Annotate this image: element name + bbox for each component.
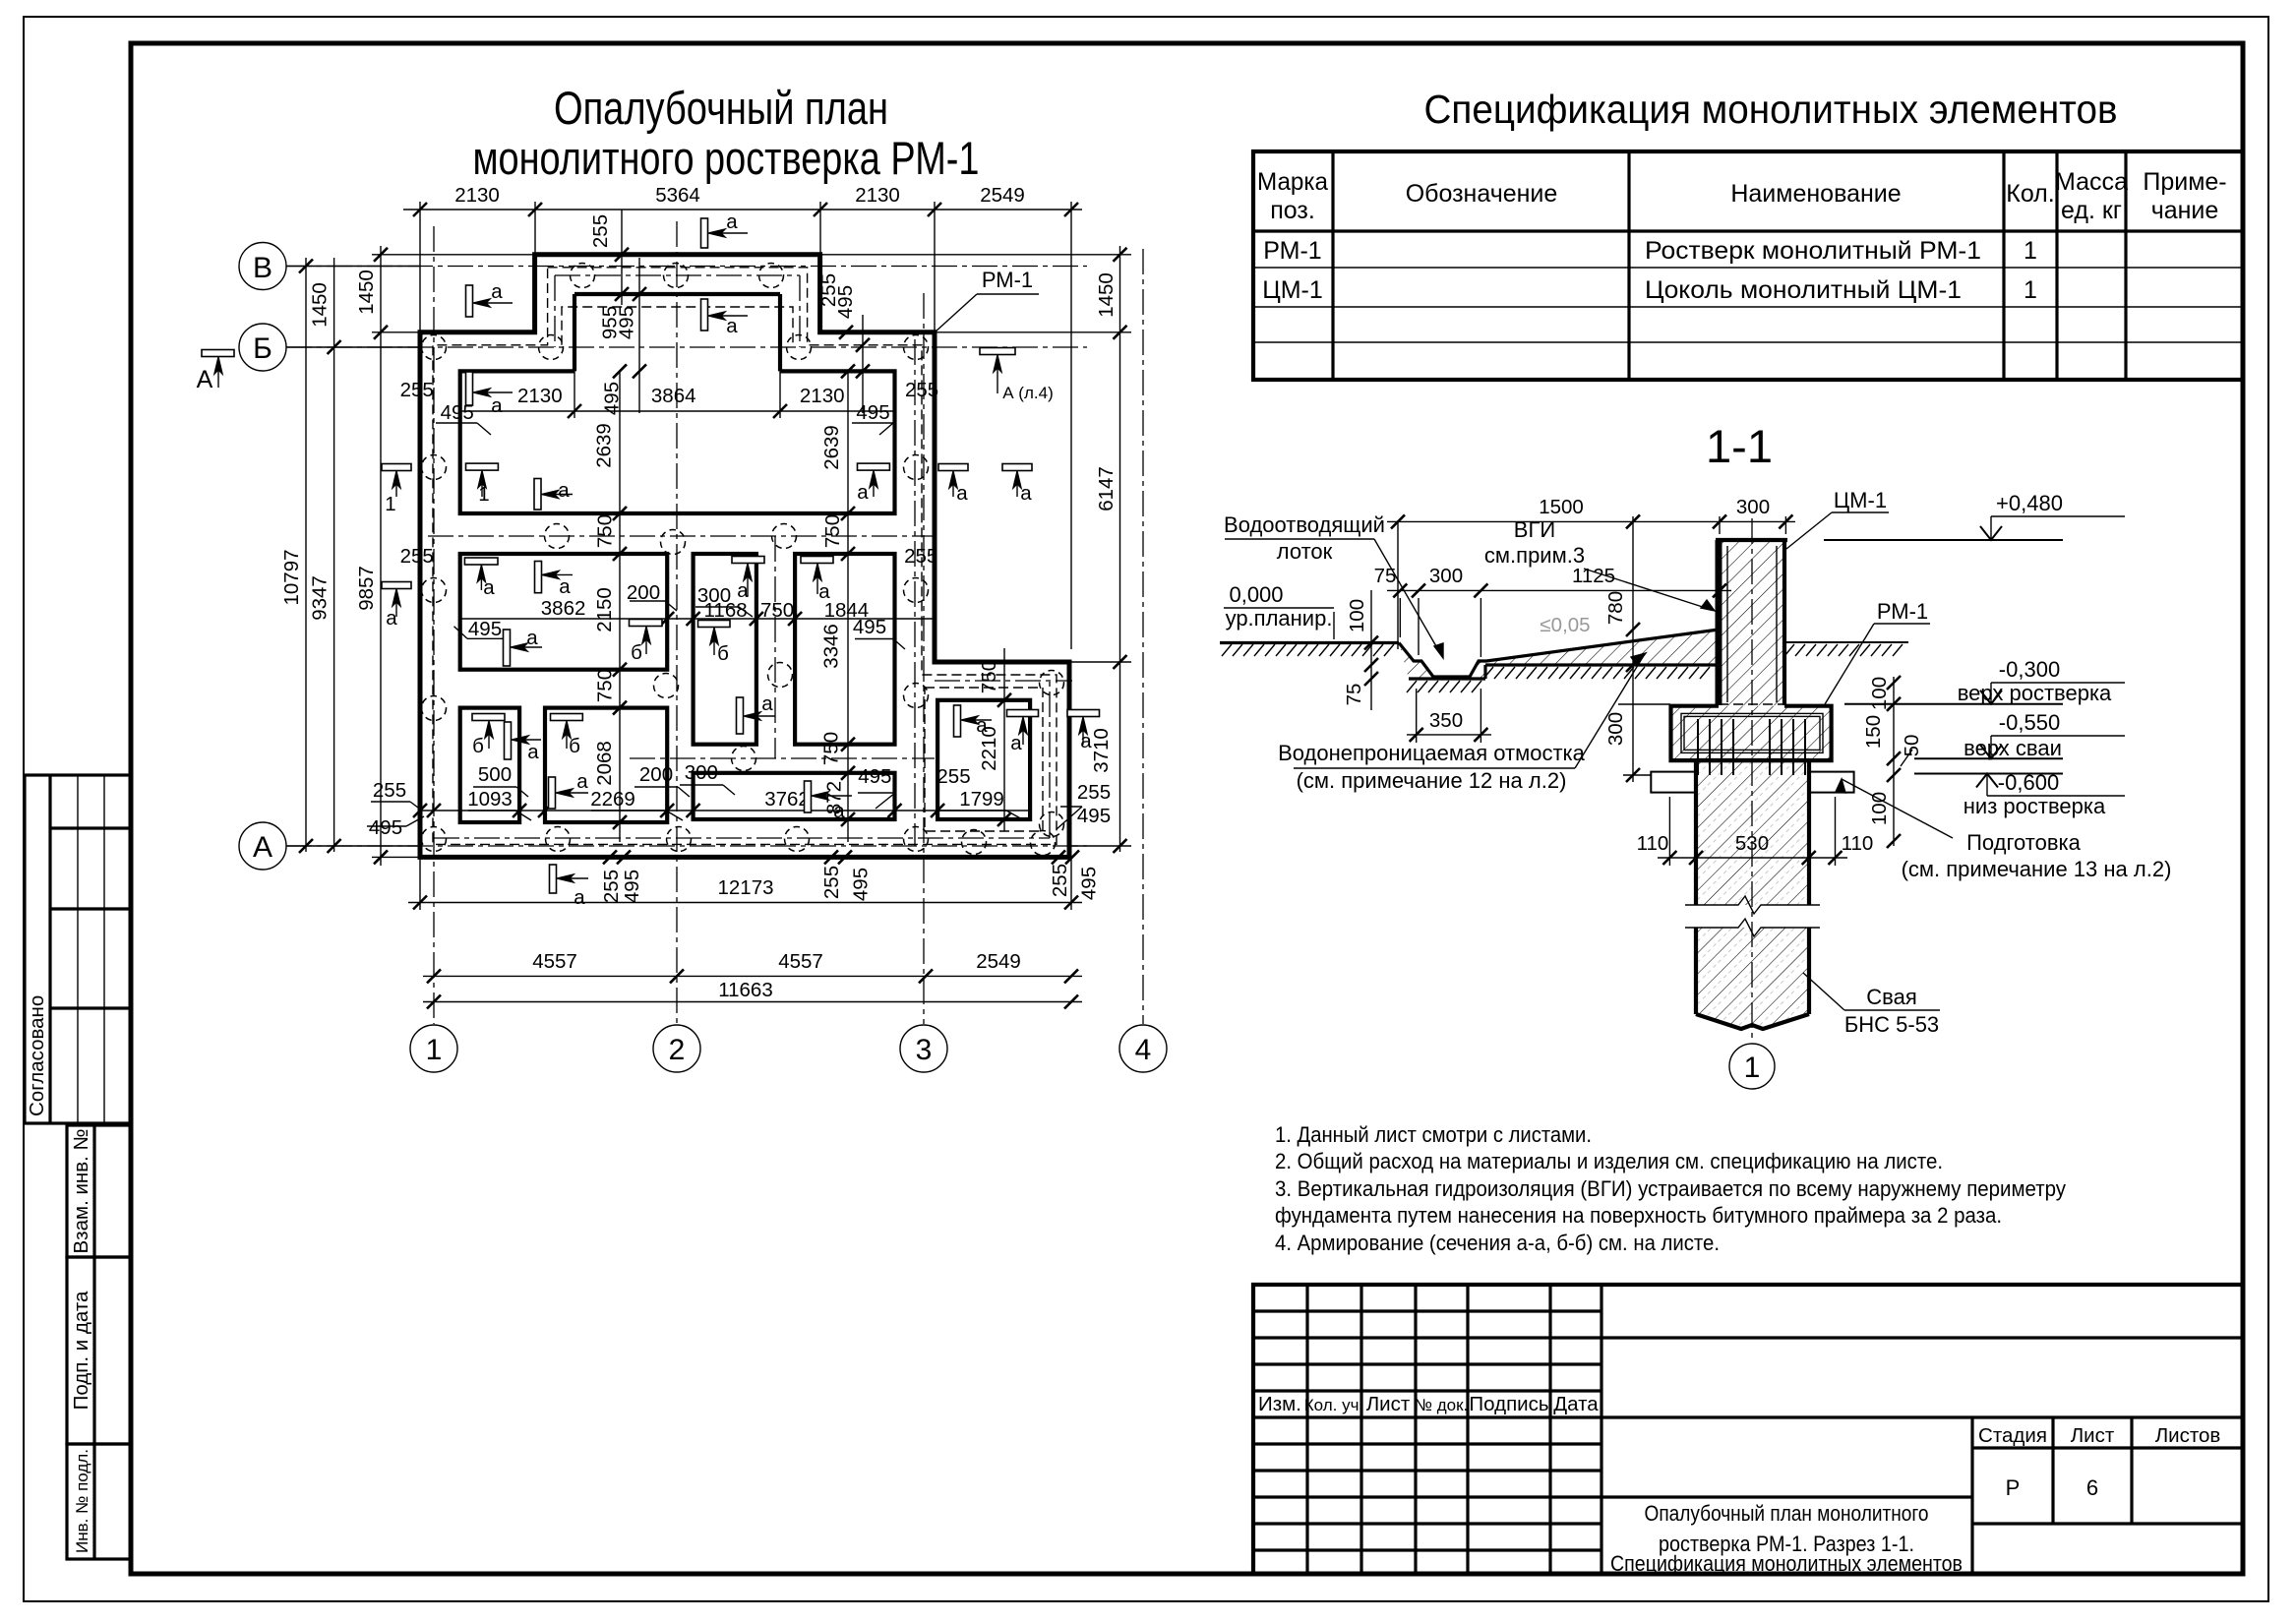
pile 3 [759, 264, 784, 288]
svg-text:а: а [576, 770, 588, 793]
plinth column CM-1 hatch [1719, 540, 1784, 705]
pile 16 [768, 663, 793, 688]
svg-text:Ростверк монолитный РМ-1: Ростверк монолитный РМ-1 [1645, 237, 1981, 265]
pile axis bottom [434, 837, 1050, 839]
svg-text:верх ростверка: верх ростверка [1958, 681, 2112, 705]
inner dim line x630 [619, 371, 621, 842]
svg-text:5364: 5364 [655, 184, 700, 207]
level -0,550 [1914, 757, 2063, 759]
svg-text:В: В [253, 252, 272, 284]
left dim 10797 [305, 258, 307, 852]
svg-text:-0,550: -0,550 [1999, 710, 2060, 735]
svg-text:-0,300: -0,300 [1999, 657, 2060, 682]
svg-text:1450: 1450 [355, 270, 378, 315]
svg-text:110: 110 [1842, 832, 1874, 855]
svg-text:2130: 2130 [800, 385, 845, 407]
svg-text:Масса: Масса [2055, 168, 2128, 196]
svg-text:2: 2 [669, 1034, 686, 1066]
svg-text:100: 100 [1868, 792, 1891, 825]
grid axis 1 [433, 226, 435, 1024]
svg-text:1093: 1093 [467, 788, 513, 811]
svg-text:фундамента путем нанесения на: фундамента путем нанесения на поверхност… [1275, 1203, 2002, 1228]
svg-text:495: 495 [850, 868, 873, 901]
svg-text:3862: 3862 [541, 597, 586, 620]
svg-text:9857: 9857 [355, 566, 378, 611]
svg-text:3346: 3346 [820, 624, 843, 669]
grid axis 2 [676, 221, 678, 1024]
svg-text:1: 1 [2024, 276, 2037, 304]
pile axis y545 [428, 535, 935, 537]
left dim 9347 [333, 258, 335, 852]
opening 2 [460, 554, 668, 670]
cap RM-1 outline [1671, 706, 1832, 760]
grid axis 4 [1142, 249, 1144, 1024]
svg-text:ед. кг: ед. кг [2061, 197, 2122, 224]
svg-text:495: 495 [1077, 867, 1100, 900]
svg-text:100: 100 [1346, 599, 1368, 632]
break lines [1685, 896, 1820, 914]
svg-text:1450: 1450 [1095, 272, 1118, 318]
svg-text:1: 1 [426, 1034, 443, 1066]
svg-text:Лист: Лист [2071, 1424, 2115, 1447]
bottom marker a [550, 865, 557, 893]
inner dim line y629 [460, 618, 935, 620]
svg-text:350: 350 [1429, 709, 1463, 732]
svg-text:495: 495 [621, 870, 643, 903]
svg-text:а: а [1020, 482, 1032, 505]
pile 4 [422, 335, 447, 360]
svg-text:100: 100 [1868, 677, 1891, 710]
pile tip [1696, 1014, 1809, 1029]
svg-text:1500: 1500 [1539, 496, 1584, 518]
svg-text:780: 780 [1604, 591, 1627, 625]
svg-text:чание: чание [2151, 197, 2219, 224]
dim 110 530 110 [1658, 857, 1847, 859]
svg-text:11663: 11663 [718, 979, 772, 1001]
pile 10 [545, 524, 570, 549]
svg-text:1: 1 [1744, 1052, 1761, 1084]
svg-text:255: 255 [589, 214, 612, 248]
svg-text:3864: 3864 [651, 385, 696, 407]
svg-text:Водонепроницаемая отмостка: Водонепроницаемая отмостка [1278, 741, 1586, 765]
level +0,480 [1824, 539, 2063, 541]
svg-text:1. Данный лист смотри с листам: 1. Данный лист смотри с листами. [1275, 1122, 1592, 1147]
svg-text:а: а [737, 579, 749, 602]
pile 22 [546, 827, 571, 852]
dim 1500 300 [1387, 520, 1795, 522]
opening 4 [795, 554, 894, 745]
apron concrete hatch [1399, 643, 1486, 680]
svg-text:а: а [976, 714, 988, 737]
svg-text:монолитного ростверка РМ-1: монолитного ростверка РМ-1 [473, 132, 980, 184]
dim 4557 4557 2549 [423, 975, 1082, 977]
svg-text:А: А [197, 366, 213, 393]
svg-text:3710: 3710 [1090, 728, 1113, 773]
svg-text:2549: 2549 [980, 184, 1025, 207]
svg-text:РМ-1: РМ-1 [1877, 599, 1928, 624]
svg-text:1: 1 [385, 493, 395, 515]
svg-text:ЦМ-1: ЦМ-1 [1834, 488, 1887, 512]
pile 14 [904, 578, 929, 603]
svg-text:БНС 5-53: БНС 5-53 [1844, 1012, 1939, 1037]
ground line right [1784, 641, 1908, 643]
svg-text:3. Вертикальная гидроизоляция: 3. Вертикальная гидроизоляция (ВГИ) устр… [1275, 1176, 2066, 1201]
svg-text:495: 495 [601, 382, 624, 415]
svg-text:255: 255 [937, 765, 970, 788]
svg-text:Стадия: Стадия [1978, 1424, 2047, 1447]
svg-text:№ док.: № док. [1415, 1396, 1469, 1414]
pile cap outer outline [420, 255, 1069, 858]
pile 5 [539, 335, 564, 360]
svg-text:Наименование: Наименование [1730, 180, 1901, 208]
svg-text:Листов: Листов [2155, 1424, 2221, 1447]
opening 6 [545, 708, 667, 822]
svg-text:530: 530 [1735, 832, 1769, 855]
dim 11663 [423, 1001, 1082, 1003]
right dim line [1119, 246, 1121, 852]
pile 23 [667, 827, 692, 852]
svg-text:ур.планир.: ур.планир. [1226, 606, 1333, 631]
svg-text:50: 50 [1901, 735, 1923, 757]
svg-text:Согласовано: Согласовано [26, 995, 48, 1116]
svg-text:(см. примечание 12 на л.2): (см. примечание 12 на л.2) [1297, 768, 1567, 793]
svg-text:2130: 2130 [454, 184, 500, 207]
pile 27 [1031, 831, 1056, 856]
svg-text:ЦМ-1: ЦМ-1 [1262, 276, 1323, 304]
svg-text:Дата: Дата [1553, 1393, 1599, 1415]
plinth dashed outline [433, 268, 1057, 845]
pile axis y692 right [935, 680, 1072, 682]
svg-text:4: 4 [1135, 1034, 1152, 1066]
svg-text:Обозначение: Обозначение [1406, 180, 1558, 208]
section mark A(l.4) [980, 348, 1015, 355]
svg-text:(см. примечание 13 на л.2): (см. примечание 13 на л.2) [1902, 857, 2172, 881]
svg-text:495: 495 [369, 816, 402, 839]
grid axis 3 [923, 293, 925, 1024]
svg-text:10797: 10797 [280, 549, 303, 605]
vzam inv block [67, 1125, 131, 1257]
svg-text:Опалубочный план монолитного: Опалубочный план монолитного [1645, 1501, 1929, 1526]
pile 2 [664, 264, 689, 288]
section markers [701, 218, 708, 248]
pile 12 [772, 524, 797, 549]
svg-text:Марка: Марка [1257, 168, 1328, 196]
cap RM-1 hatch [1671, 706, 1832, 760]
svg-text:255: 255 [904, 545, 937, 568]
svg-text:2130: 2130 [855, 184, 900, 207]
svg-text:а: а [386, 607, 397, 630]
svg-text:а: а [526, 627, 538, 649]
svg-text:500: 500 [478, 763, 512, 786]
svg-text:300: 300 [1429, 565, 1463, 587]
svg-text:255: 255 [905, 379, 938, 401]
pile 20 [732, 747, 756, 771]
pile hatch upper [1696, 760, 1809, 905]
pile label [1803, 973, 1844, 1010]
svg-text:Инв. № подл.: Инв. № подл. [73, 1449, 91, 1553]
svg-text:255: 255 [373, 779, 406, 802]
svg-text:6147: 6147 [1095, 466, 1118, 511]
svg-text:РМ-1: РМ-1 [1263, 237, 1321, 265]
svg-text:ВГИ: ВГИ [1514, 517, 1555, 542]
svg-text:1125: 1125 [1572, 565, 1615, 587]
svg-text:750: 750 [593, 669, 616, 702]
svg-text:750: 750 [978, 660, 1000, 693]
svg-text:750: 750 [760, 599, 794, 622]
svg-text:255: 255 [400, 545, 434, 568]
svg-text:495: 495 [468, 618, 502, 640]
svg-text:Взам. инв. №: Взам. инв. № [70, 1128, 92, 1253]
svg-text:Спецификация монолитных элемен: Спецификация монолитных элементов [1424, 87, 2118, 132]
svg-text:а: а [726, 210, 738, 233]
pile 17 [904, 684, 929, 708]
column CM-1 outline [1716, 540, 1722, 705]
dim 12173 [408, 902, 1082, 904]
svg-text:Приме-: Приме- [2143, 168, 2226, 196]
podgotovka label [1836, 779, 1845, 793]
svg-text:6: 6 [2086, 1475, 2098, 1500]
svg-text:А: А [253, 831, 272, 864]
grid bubble 4 [1119, 1025, 1167, 1072]
inner dim line y824 [420, 810, 1030, 811]
plinth dashed around opening 8 [925, 688, 1043, 831]
svg-text:-0,600: -0,600 [1998, 770, 2059, 795]
svg-text:а: а [1010, 732, 1022, 754]
svg-text:Цоколь монолитный ЦМ-1: Цоколь монолитный ЦМ-1 [1645, 276, 1962, 304]
svg-text:б: б [569, 735, 580, 757]
svg-text:1450: 1450 [309, 282, 332, 328]
dim 75 300 1125 [1387, 589, 1731, 591]
svg-text:верх сваи: верх сваи [1964, 736, 2062, 760]
top extension lines [419, 202, 421, 332]
right part [1601, 1336, 2243, 1339]
axis bubble V [239, 243, 286, 290]
svg-text:Кол. уч.: Кол. уч. [1304, 1396, 1363, 1414]
svg-text:Р: Р [2006, 1475, 2021, 1500]
svg-text:а: а [527, 741, 539, 763]
svg-text:Б: Б [253, 332, 272, 365]
opening 3 [694, 554, 756, 745]
inv n podl block [67, 1444, 131, 1559]
svg-text:а: а [574, 886, 585, 909]
svg-text:Изм.: Изм. [1258, 1393, 1301, 1415]
pile 6 [787, 335, 812, 360]
opening 5 [460, 708, 519, 822]
pile 7 [904, 335, 929, 360]
soglasovano block [25, 775, 131, 1123]
pile 8 [422, 455, 447, 480]
inner dim line x1021 [1003, 648, 1005, 831]
svg-text:0,000: 0,000 [1229, 582, 1283, 607]
svg-text:4557: 4557 [778, 950, 823, 973]
apron underside [1409, 677, 1485, 680]
svg-text:4557: 4557 [532, 950, 577, 973]
svg-text:см.прим.3: см.прим.3 [1484, 543, 1585, 568]
svg-text:РМ-1: РМ-1 [982, 268, 1033, 292]
dim 350 [1407, 734, 1491, 736]
inner dim line y418 [460, 410, 895, 412]
pile outline [1694, 760, 1698, 905]
svg-text:150: 150 [1862, 715, 1885, 749]
svg-text:а: а [558, 479, 570, 502]
svg-text:Опалубочный план: Опалубочный план [554, 82, 888, 134]
svg-text:Подп. и дата: Подп. и дата [70, 1291, 92, 1410]
svg-text:495: 495 [834, 285, 857, 319]
top notch [574, 292, 780, 296]
left extensions [286, 266, 420, 268]
right vertical dim chain [1893, 677, 1895, 846]
svg-text:255: 255 [820, 866, 843, 899]
left dim 9857 [380, 246, 382, 866]
svg-text:300: 300 [1736, 496, 1770, 518]
dim 100 75 left [1370, 590, 1372, 710]
pile axis y771 [630, 757, 935, 759]
svg-text:2639: 2639 [820, 425, 843, 470]
grid bubble 3 [900, 1025, 947, 1072]
svg-text:300: 300 [685, 761, 718, 784]
svg-text:≤0,05: ≤0,05 [1540, 614, 1590, 636]
pile 15 [654, 674, 679, 698]
svg-text:75: 75 [1374, 565, 1397, 587]
svg-text:а: а [483, 576, 495, 599]
svg-text:255: 255 [1077, 781, 1111, 804]
top dim line [403, 209, 1082, 210]
svg-text:низ ростверка: низ ростверка [1964, 794, 2106, 818]
svg-text:а: а [761, 692, 773, 715]
axis V line [286, 266, 1087, 268]
svg-text:а: а [491, 394, 503, 417]
svg-text:а: а [491, 280, 503, 303]
opening 7 [694, 773, 895, 819]
svg-text:200: 200 [639, 763, 673, 786]
svg-text:1-1: 1-1 [1706, 420, 1773, 472]
svg-text:Свая: Свая [1866, 985, 1916, 1009]
svg-text:495: 495 [616, 306, 638, 339]
svg-text:2269: 2269 [590, 788, 635, 811]
svg-text:а: а [559, 575, 571, 598]
pile 26 [962, 830, 987, 855]
grid bubble 1 [410, 1025, 457, 1072]
svg-text:3: 3 [916, 1034, 933, 1066]
svg-text:495: 495 [856, 401, 889, 424]
pile 21 [422, 827, 447, 852]
svg-text:750: 750 [820, 732, 843, 765]
grid bubble 2 [653, 1025, 700, 1072]
svg-text:а: а [818, 580, 830, 603]
svg-text:а: а [956, 482, 968, 505]
svg-text:495: 495 [853, 616, 886, 638]
svg-text:1168: 1168 [704, 599, 748, 622]
svg-text:2639: 2639 [593, 423, 616, 468]
pile axis x930 right [914, 339, 916, 846]
pile 9 [904, 455, 929, 480]
svg-text:а: а [857, 481, 869, 504]
dim 780 300 [1632, 516, 1634, 782]
svg-text:12173: 12173 [717, 876, 773, 899]
prep layer right wing [1809, 772, 1854, 793]
svg-text:255: 255 [400, 379, 434, 401]
inner dim line x862 [847, 371, 849, 842]
pile axis x788 [774, 536, 776, 758]
svg-text:а: а [726, 315, 738, 337]
svg-text:110: 110 [1637, 832, 1669, 855]
prep layer left wing [1651, 772, 1696, 793]
column centerline [1751, 518, 1753, 1043]
micro dim lines top [621, 210, 623, 305]
pile 1 [571, 264, 595, 288]
level -0,300 [1844, 703, 2063, 705]
svg-text:лоток: лоток [1277, 539, 1333, 564]
svg-text:Водоотводящий: Водоотводящий [1224, 512, 1385, 537]
bottom ext ticks [603, 850, 617, 864]
svg-text:А (л.4): А (л.4) [1002, 384, 1053, 402]
axis B line [286, 346, 1087, 348]
svg-text:1: 1 [2024, 237, 2037, 265]
axis bubble A [239, 822, 286, 870]
svg-text:Подпись: Подпись [1469, 1393, 1548, 1415]
svg-text:300: 300 [1604, 712, 1627, 746]
pile 11 [661, 530, 686, 555]
pile 13 [422, 578, 447, 603]
opening 8 [937, 700, 1030, 819]
plinth dashed notch [562, 307, 793, 345]
svg-text:а: а [833, 800, 845, 822]
cold joint dashed [1719, 703, 1784, 705]
svg-text:б: б [631, 641, 642, 664]
rebar cage [1681, 713, 1823, 752]
axis bubble B [239, 324, 286, 371]
svg-text:Кол.: Кол. [2006, 180, 2054, 208]
pile bubble 1 [1729, 1044, 1775, 1089]
svg-text:+0,480: +0,480 [1996, 491, 2063, 515]
pile 25 [904, 827, 929, 852]
trench profile [1399, 630, 1719, 677]
pile 24 [785, 827, 810, 852]
svg-text:3762: 3762 [764, 788, 810, 811]
svg-text:2549: 2549 [976, 950, 1021, 973]
svg-text:а: а [1080, 730, 1092, 752]
pile 28 [1040, 812, 1064, 837]
level -0,600 [1914, 773, 2063, 775]
pile hatch lower [1696, 928, 1809, 1029]
svg-text:75: 75 [1343, 684, 1365, 706]
svg-text:1799: 1799 [959, 788, 1004, 811]
ground line left [1220, 641, 1399, 644]
svg-text:750: 750 [821, 514, 844, 548]
svg-text:4. Армирование (сечения а-а, б: 4. Армирование (сечения а-а, б-б) см. на… [1275, 1231, 1720, 1255]
pile 18 [1040, 671, 1064, 695]
opening 1 [460, 371, 895, 513]
svg-text:Лист: Лист [1366, 1393, 1411, 1415]
svg-text:495: 495 [1077, 805, 1111, 827]
svg-text:2. Общий расход на материалы и: 2. Общий расход на материалы и изделия с… [1275, 1149, 1943, 1173]
svg-text:2068: 2068 [593, 741, 616, 786]
svg-text:750: 750 [593, 514, 616, 548]
axis A line [286, 845, 1087, 847]
svg-text:поз.: поз. [1270, 197, 1315, 224]
svg-text:255: 255 [1049, 864, 1071, 897]
pile axis bump [555, 274, 800, 276]
pile 19 [422, 696, 447, 721]
podp i data block [67, 1257, 131, 1444]
svg-text:Спецификация монолитных элемен: Спецификация монолитных элементов [1610, 1551, 1963, 1576]
svg-text:б: б [472, 735, 484, 757]
svg-text:495: 495 [858, 765, 891, 788]
svg-text:9347: 9347 [309, 575, 332, 621]
svg-text:б: б [717, 642, 729, 665]
section mark A left [202, 350, 234, 357]
svg-text:255: 255 [600, 870, 623, 903]
